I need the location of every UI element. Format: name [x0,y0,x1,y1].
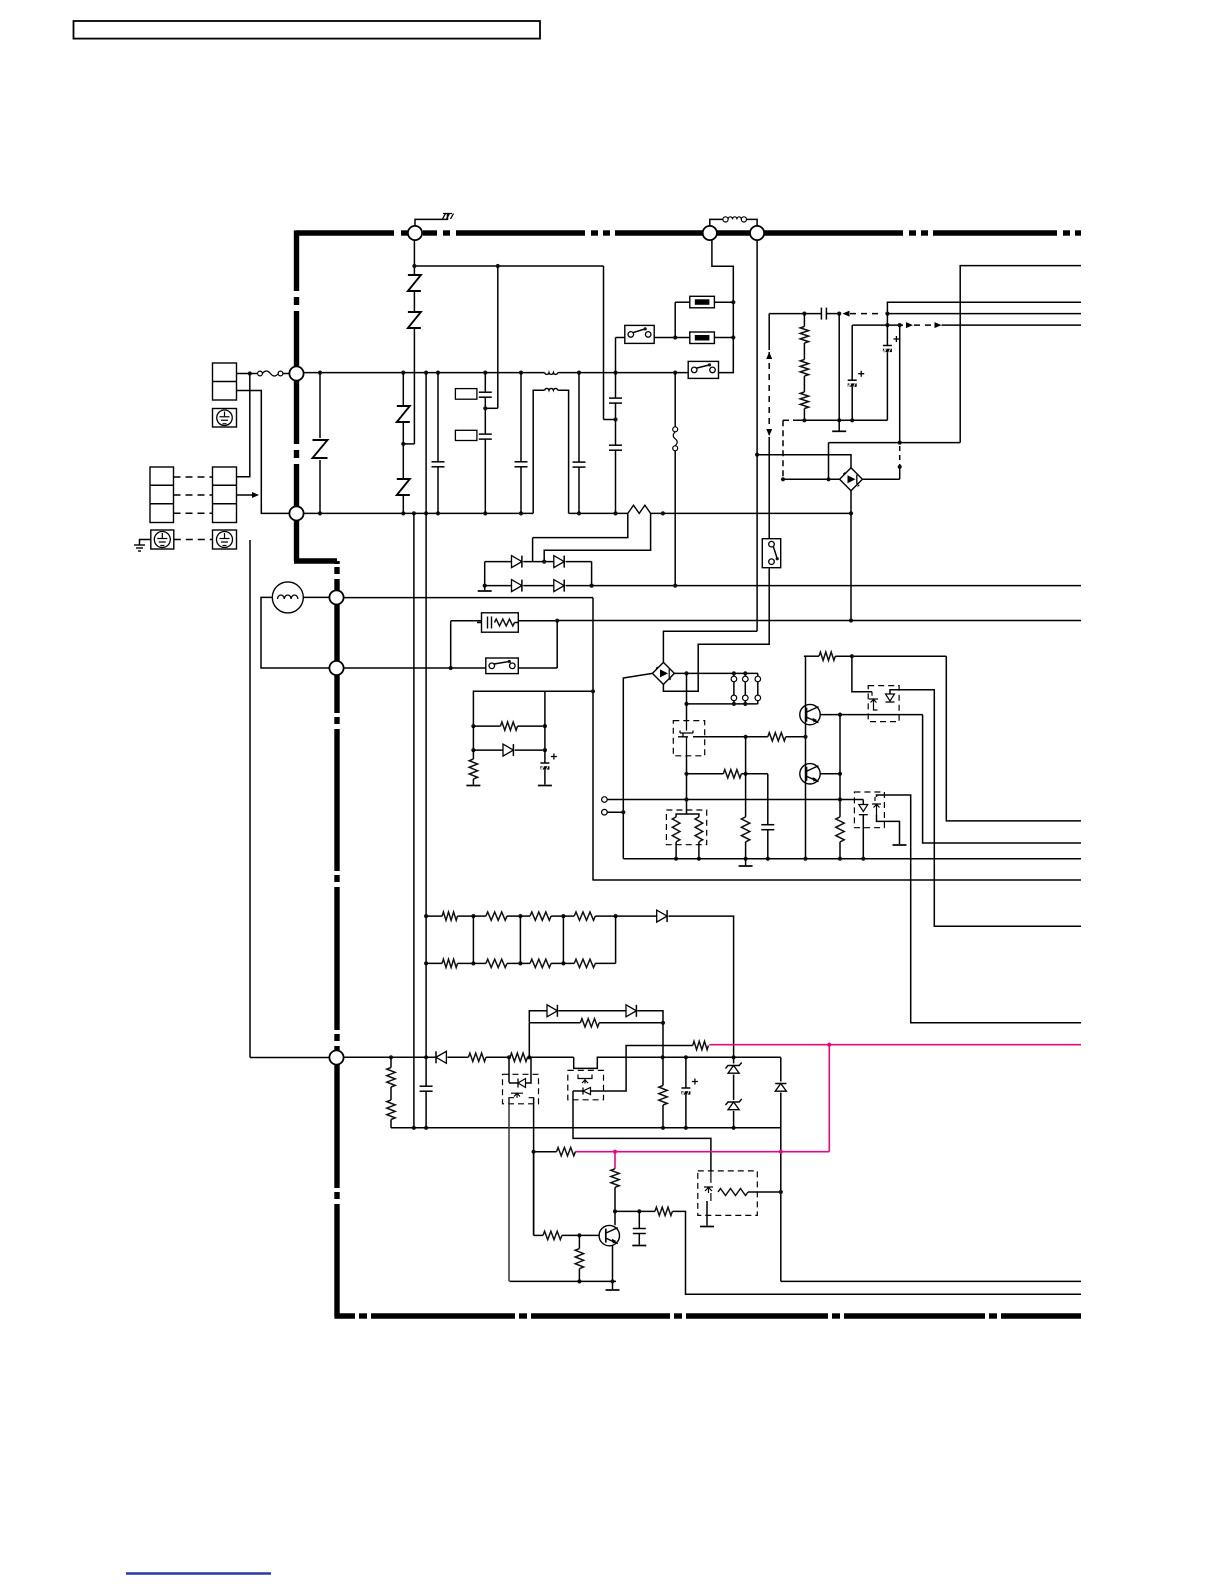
row y597 from border [343,597,593,599]
magenta vertical [828,1045,830,1152]
row1-row2 link [591,562,593,586]
electrolytic C9 [851,325,853,380]
thermal cutout TCO (N rail) [628,505,651,513]
L rail junction dots [318,371,322,375]
chassis border bottom [334,1313,355,1318]
row y420 [783,419,793,421]
motor M1 [272,582,303,613]
PC4 transistor [872,797,881,815]
chassis border left lower [334,561,339,564]
bus termination bar [745,859,747,866]
switch SW3 [486,658,519,674]
resistor R23 [768,733,786,741]
wire y537 to N [533,513,628,537]
capacitor C4 [578,373,580,462]
resistor box RB1 [455,389,477,400]
surge absorber Z2/Z3 line [402,373,404,405]
chassis ground stub at top [415,213,448,240]
driver collector row [804,655,819,657]
capacitor C13 [638,1211,640,1228]
RC1 leads [451,620,482,622]
wire y266 [414,265,603,267]
PC-A drain drop [533,1098,535,1235]
wire to right edge y821 [946,656,1081,821]
earth dashed link [174,539,213,541]
relay linkage dashed [768,314,770,350]
LV main line [343,1056,436,1058]
earth lead wire [140,540,151,546]
earth terminal E2 left [151,530,174,549]
row y620 to right edge [557,620,1081,622]
CN3 wires [607,799,863,801]
dashed drop to DB1 [782,420,784,479]
capacitor C2a/C2b stack [484,373,486,392]
collector row [615,1210,655,1212]
connector CN1 right half [213,467,237,523]
fuse F1 [690,296,715,308]
ladder bottom row resistors R10-R13 [426,962,442,964]
junction Z2-Z3 [401,442,405,446]
central rail continues [686,756,688,810]
earth terminal E1 [213,409,237,428]
PC3 transistor [704,1171,713,1201]
line to right edge y1281 [781,1280,1081,1282]
N rail wire left [303,512,533,514]
junction SW1-F2 [673,335,677,339]
choke L1 bottom winding loop [533,390,544,513]
diode D4 [554,580,564,592]
rung left [484,562,486,591]
resistor R25 [745,774,747,817]
TCO tail wire [544,513,650,561]
junction y266 [412,264,416,268]
ladder rungs [472,916,474,963]
resistor R18 [662,1023,664,1086]
opto PC4 box [854,792,884,828]
wire x603 from y266 [603,266,605,420]
diode D7 [436,1051,446,1063]
resistor R17 [510,1053,528,1061]
junction C2 [483,406,487,410]
resistor R29 [836,817,844,842]
Q3 base network [534,1234,543,1236]
link R23-R24 [745,737,747,774]
magenta wire 2 [575,1151,829,1153]
DB1 ac lead left [783,478,840,480]
row y1023 to right edge [529,1022,580,1024]
capacitor C11 [420,1085,433,1087]
line x839 with termination [838,314,840,431]
line from border circle x757 [756,240,758,631]
switch SW1 line with C5/C6 [615,338,617,398]
row y313 with capacitor C7 [769,313,821,315]
transistor Q3 [614,1211,616,1225]
title box (empty) [74,21,541,39]
resistor chain R1-R3 [803,314,805,327]
bus line y302 [887,302,1081,313]
CN2 pin links [733,682,735,695]
PC2 transistor [578,1075,592,1084]
wire border to DB2 [663,631,757,662]
connector CN1 left half [150,467,174,523]
footer blue rule [126,1572,271,1574]
drop x593 [592,598,594,880]
connector CN2 top pins [733,673,735,676]
resistor chain R14/R15 to bus [390,1057,392,1067]
capacitor C3 (X2) [520,373,522,462]
resistor R20 chain [611,1169,619,1188]
resistor R22 [578,1235,580,1248]
wire from y266 to C2 node [497,266,499,408]
choke L1 top winding [545,373,558,375]
PC4 emitter lead [877,815,900,844]
parallel link x450 [450,621,452,668]
PC1 transistor [869,692,878,710]
DB2 minus to door switch SW4 [663,568,769,692]
central HV rail [686,673,688,720]
PC1 diode top lead [890,690,1081,927]
ladder feed x426 [425,373,427,1086]
wire to CN1 pin1 [237,374,250,477]
border junction circles [408,226,422,240]
resistor box RB2 [455,430,477,440]
diode D1 [512,556,522,568]
resistor R19 [693,1041,709,1049]
motor loop wires [303,596,330,598]
surge line from border circle with Z4/Z5 [413,240,415,274]
opto PC3 box [698,1171,758,1216]
diode D3 [512,580,522,592]
thermostat TH1 line [674,373,676,427]
zener loop row [528,1023,530,1058]
capacitor C14 [767,774,769,825]
link x544 [544,691,546,726]
zener stack ZD3/ZD4 [733,1057,735,1063]
line x414 [413,513,415,1127]
CN1 middle pin stub arrow [237,494,254,496]
resistor R28 [819,652,835,660]
opto PC1 box [868,686,899,722]
power FET Q4 [678,721,693,756]
connector CN3 pins [602,797,608,803]
DB2 right lead row [674,672,757,674]
thermal fuse TF1 [258,371,263,376]
DB2 left lead [623,673,652,858]
Q1 output row [820,714,922,716]
electrolytic C12 [685,1057,687,1087]
main line dip at PC2 [574,1057,663,1068]
PC4 diode [862,800,864,805]
door switch SW4 [762,539,780,568]
opto PC2 box [568,1070,604,1099]
diode row1 [485,561,512,563]
gate divider row [687,773,724,775]
wire switchB to fuse loop [712,240,733,373]
resistor R21 base row top [534,1151,557,1153]
CN1 dashed links [174,476,213,478]
N rail wire right [569,512,628,514]
row y880 to right edge [592,879,1081,881]
resistor R4 [473,725,500,727]
electrolytic C10 [544,726,546,750]
earth terminal E3 right [213,530,237,549]
relay feed wire [473,691,593,726]
bridge rectifier DB1 [840,468,863,491]
surge absorber Z1 [319,373,321,438]
Q3 emitter [612,1246,614,1290]
diode D2 [554,556,564,568]
bridge rectifier DB2 [652,662,674,684]
capacitor C1 (X2) [437,373,439,462]
resistor R16 [468,1053,486,1061]
ladder top row resistors R6-R9 [426,915,442,917]
junction L-TB [248,371,252,375]
connector CN2 bottom pins [731,695,737,701]
chassis border top [297,230,395,235]
wire ladder to HV block [669,916,734,1057]
junction fuse right top [731,300,735,304]
earth ground symbol [134,544,145,546]
fuse F2 [690,332,715,344]
PC2 leads [573,1090,583,1092]
driver rail x805 [805,656,807,859]
diode D6 [616,915,657,917]
terminal block TB1 [213,363,237,400]
chassis border left upper [294,230,299,291]
local ground row [510,1280,616,1282]
switch SW2 on L rail [688,361,718,378]
resistor R5 to ground [472,750,474,759]
LV ground bus [391,1127,781,1129]
row y668 from border [343,667,486,669]
transistor Q1 [800,704,820,724]
electrolytic C8 [886,314,888,346]
PC1 input lead [852,656,872,692]
magenta stub to R20 [614,1152,616,1169]
FET box PC-B [673,721,704,756]
L rail wire [303,372,544,374]
HV ground bus [623,858,1081,860]
FET gate row [693,736,746,738]
switch SW1 [625,325,654,343]
PC-A diode [508,1057,510,1082]
resistor R27 [687,814,699,817]
row y325 [852,324,903,326]
wire to right edge y843 [923,715,1081,843]
resistor R24 [723,770,741,778]
RC box RC1 [482,613,519,632]
transistor Q2 [800,764,820,784]
N rail junction dots [318,511,322,515]
PC3 emitter ground [706,1201,708,1226]
junction x473 y726 [471,724,475,728]
resistor R26 [676,810,686,817]
bus y585 with diodes [485,585,512,587]
PC-A FET [509,1093,534,1104]
PC4 collector lead [877,795,1082,1023]
dashed box dual resistor [666,810,706,845]
PC-A source drop [508,1098,510,1281]
FET box PC-A [503,1074,539,1104]
zener ZD2 [626,1005,636,1017]
zener ZD1 [547,1005,557,1017]
DB1 ac lead right [862,478,899,480]
chassis border jog [294,558,337,563]
line x899 to bridge [899,325,901,443]
PC3 resistor [718,1189,748,1196]
junction fuse right bottom [731,335,735,339]
wire L from TB1 [237,373,258,375]
PC2 diode [583,1088,591,1095]
bus line y266 right [960,266,1081,443]
DB1 minus drop [850,491,852,621]
junction C5-C6 [613,417,617,421]
node x840 [839,715,841,817]
DB1 top feed from border [757,455,851,468]
wire N from TB1 [237,391,291,514]
wire CN1 to low-voltage return [249,540,251,1058]
diode D8 in output leg [780,1057,782,1081]
diode D5 row [472,726,474,750]
PC1 diode [886,694,895,701]
gray row y442 [829,442,961,444]
choke L2 at border top [710,219,723,239]
Q2 output row [820,773,840,775]
magenta wire 1 [709,1044,1081,1046]
